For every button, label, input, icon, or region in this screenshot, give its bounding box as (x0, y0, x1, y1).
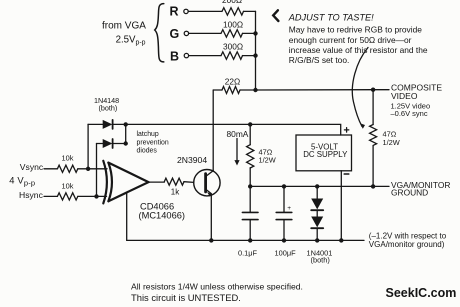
svg-text:prevention: prevention (137, 139, 169, 146)
svg-text:R: R (170, 5, 179, 19)
junction Hsync node (94, 194, 98, 198)
svg-text:R/G/B/S set too.: R/G/B/S set too. (289, 55, 350, 65)
wire R3 to bus (243, 55, 256, 57)
svg-text:May have to redrive RGB to pro: May have to redrive RGB to provide (289, 25, 422, 35)
junction D4 bottom (315, 238, 319, 242)
wire gate ground stub (126, 193, 128, 241)
resistor R5 10k (57, 193, 77, 200)
svg-text:1k: 1k (171, 187, 180, 196)
svg-text:–0.6V sync: –0.6V sync (391, 109, 428, 118)
wire D3 to D4 (316, 210, 318, 216)
junction Vsync node (86, 167, 90, 171)
svg-text:VIDEO: VIDEO (391, 91, 418, 101)
svg-text:200Ω: 200Ω (222, 0, 242, 5)
svg-text:from VGA: from VGA (102, 20, 146, 31)
resistor 200 ohm (222, 8, 244, 15)
wire +5 rail to R8 (249, 124, 251, 144)
svg-text:increase value of this resisto: increase value of this resistor and the (289, 45, 428, 55)
svg-text:enough current for 50Ω drive—o: enough current for 50Ω drive—or (289, 35, 412, 45)
current arrow 80mA (236, 139, 238, 162)
wire R1 to bus (244, 10, 256, 12)
svg-text:(MC14066): (MC14066) (139, 210, 186, 220)
svg-text:+: + (287, 205, 291, 212)
svg-text:100Ω: 100Ω (223, 19, 243, 29)
diode D2 1N4148 (103, 139, 113, 148)
junction D1/D2 cathodes (124, 122, 128, 126)
svg-text:diodes: diodes (137, 147, 158, 154)
svg-text:1/2W: 1/2W (383, 138, 400, 147)
label plus terminal (344, 128, 348, 132)
svg-text:Vsync: Vsync (20, 162, 44, 172)
svg-text:80mA: 80mA (227, 129, 249, 139)
wire R6 to base (184, 181, 194, 184)
junction D2 cathode (124, 141, 128, 145)
svg-text:Hsync: Hsync (19, 190, 44, 200)
wire collector to 22 ohm (212, 90, 214, 171)
Q1 collector stroke (206, 171, 214, 177)
wire D4 to bottom rail (316, 228, 318, 240)
wire D2 anode lead (97, 143, 103, 145)
wire Hsync input (44, 195, 57, 197)
diode D4 1N4001 (311, 217, 323, 228)
wire Hsync node to D2 (96, 144, 98, 197)
junction PS1 minus rail (339, 238, 343, 242)
svg-text:(both): (both) (311, 255, 330, 264)
wire VGA ground rail (250, 185, 389, 187)
wire +5V rail (114, 124, 341, 135)
wire composite video line (256, 89, 390, 91)
junction ground/C1 (248, 184, 252, 188)
svg-text:10k: 10k (62, 181, 74, 190)
svg-text:B: B (170, 50, 179, 64)
wire R2 to bus (243, 32, 256, 34)
svg-text:DC SUPPLY: DC SUPPLY (303, 150, 348, 159)
wire R5 to gate input B (78, 195, 107, 197)
wire PS1 minus to bottom rail (340, 171, 342, 241)
svg-text:VGA/monitor ground): VGA/monitor ground) (369, 240, 445, 249)
gate U1 CD4066 xor symbol (103, 161, 107, 204)
transistor Q1 2N3904 (194, 170, 220, 196)
svg-text:SeekIC.com: SeekIC.com (386, 286, 457, 300)
wire B terminal to R3 (189, 55, 221, 57)
wire G terminal to R2 (189, 32, 221, 34)
svg-text:10k: 10k (62, 154, 74, 163)
wire minus supply bottom rail (127, 239, 364, 241)
curved arrow from note to R7 (352, 48, 368, 127)
svg-text:(both): (both) (99, 103, 118, 112)
junction C2 bottom (282, 238, 286, 242)
resistor R7 47 ohm 1/2W output (370, 125, 377, 146)
svg-text:100μF: 100μF (275, 249, 297, 258)
capacitor C2 100uF (283, 186, 285, 212)
junction composite output (371, 88, 375, 92)
svg-text:G: G (170, 27, 180, 41)
svg-text:4 Vp-p: 4 Vp-p (9, 175, 35, 188)
Q1 emitter stroke (206, 189, 212, 193)
wire R8 to ground rail (249, 168, 251, 187)
wire composite to R7 (372, 90, 374, 125)
wire R4 to gate input A (78, 168, 107, 170)
resistor R4 10k (57, 165, 77, 172)
junction R7 ground (371, 184, 375, 188)
wire D2 cathode to rail (114, 124, 126, 143)
svg-text:2N3904: 2N3904 (177, 155, 207, 165)
junction B bus (253, 53, 257, 57)
wire D3/D4 string top (316, 186, 318, 198)
svg-text:All resistors 1/4W unless othe: All resistors 1/4W unless otherwise spec… (131, 281, 303, 291)
svg-text:22Ω: 22Ω (225, 77, 240, 87)
wire Vsync node to D1 (87, 124, 89, 168)
svg-text:300Ω: 300Ω (223, 42, 243, 52)
junction +5 rail to 47 ohm dropper (248, 122, 252, 126)
diode D1 1N4148 (103, 120, 113, 129)
junction G bus (253, 31, 257, 35)
junction ground/D3 (315, 184, 319, 188)
label minus terminal (344, 173, 349, 175)
wire D1 anode lead (88, 123, 103, 125)
svg-text:1/2W: 1/2W (259, 156, 276, 165)
capacitor C1 0.1uF (249, 186, 251, 212)
junction C1 bottom (248, 238, 252, 242)
wire emitter to minus rail (210, 194, 212, 241)
junction ground/C2 (282, 184, 286, 188)
wire 22 ohm right to bus (240, 89, 256, 91)
junction bus / composite line (253, 88, 257, 92)
wire RGB summing bus (255, 11, 257, 90)
svg-text:GROUND: GROUND (391, 187, 428, 197)
diode D3 1N4001 (311, 199, 323, 210)
brace for RGB inputs (155, 4, 164, 62)
wire R terminal to R1 (188, 10, 222, 12)
svg-text:0.1μF: 0.1μF (238, 249, 258, 258)
wire gate output to R6 (149, 181, 165, 183)
wire 22 ohm left to collector drop (213, 89, 222, 91)
junction emitter rail (209, 238, 213, 242)
wire R7 to ground rail (372, 146, 374, 187)
svg-text:This circuit is UNTESTED.: This circuit is UNTESTED. (131, 292, 241, 303)
resistor R6 1k (164, 178, 184, 185)
resistor 300 ohm (221, 52, 243, 59)
resistor R8 47 ohm 1/2W dropper (247, 145, 254, 168)
resistor 22 ohm (222, 87, 240, 94)
wire Vsync input (44, 168, 57, 170)
svg-text:2.5Vp-p: 2.5Vp-p (116, 35, 146, 47)
svg-text:ADJUST TO TASTE!: ADJUST TO TASTE! (288, 13, 374, 23)
svg-text:latchup: latchup (137, 131, 159, 138)
resistor 100 ohm (221, 30, 243, 37)
note chevron (273, 10, 278, 21)
power supply PS1 5-volt box (296, 135, 352, 171)
